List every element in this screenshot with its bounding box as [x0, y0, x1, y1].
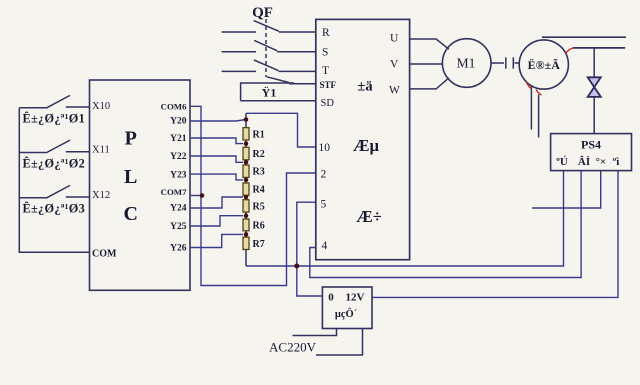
svg-text:ºì: ºì [613, 156, 620, 168]
svg-text:PS4: PS4 [581, 138, 601, 152]
svg-text:P: P [125, 128, 137, 150]
svg-text:R1: R1 [253, 129, 265, 140]
svg-text:X10: X10 [92, 101, 110, 112]
svg-text:L: L [124, 166, 137, 188]
svg-text:Ê±¿Ø¿ª¹Ø3: Ê±¿Ø¿ª¹Ø3 [22, 201, 85, 215]
svg-text:R5: R5 [253, 201, 265, 212]
svg-text:°×: °× [595, 156, 606, 168]
svg-text:Y24: Y24 [170, 204, 187, 214]
svg-text:Y26: Y26 [170, 244, 187, 254]
svg-text:SD: SD [321, 98, 335, 109]
svg-text:5: 5 [321, 199, 327, 211]
svg-text:S: S [322, 47, 328, 59]
svg-text:R6: R6 [253, 220, 265, 231]
svg-text:R2: R2 [253, 149, 265, 160]
svg-text:Y25: Y25 [170, 222, 187, 232]
svg-text:C: C [123, 203, 137, 225]
svg-text:COM6: COM6 [161, 101, 187, 111]
svg-text:V: V [390, 59, 399, 71]
svg-text:X11: X11 [92, 144, 110, 155]
svg-text:ºÚ: ºÚ [556, 156, 568, 168]
svg-text:10: 10 [319, 142, 331, 154]
svg-text:Ÿ1: Ÿ1 [262, 86, 277, 100]
svg-text:4: 4 [322, 240, 328, 252]
svg-text:COM: COM [92, 249, 117, 260]
svg-text:T: T [322, 65, 329, 77]
svg-text:12V: 12V [346, 292, 365, 304]
svg-text:0: 0 [328, 292, 334, 304]
svg-text:COM7: COM7 [161, 187, 187, 197]
svg-text:Æ÷: Æ÷ [356, 207, 382, 226]
svg-text:X12: X12 [92, 190, 110, 201]
svg-text:QF: QF [252, 5, 273, 21]
svg-text:AC220V: AC220V [269, 340, 317, 355]
svg-text:M1: M1 [457, 56, 476, 71]
svg-text:U: U [390, 33, 399, 45]
svg-text:R7: R7 [253, 239, 265, 250]
svg-text:µçÔ´: µçÔ´ [335, 307, 358, 320]
svg-text:Ê±¿Ø¿ª¹Ø1: Ê±¿Ø¿ª¹Ø1 [22, 112, 85, 126]
svg-text:±ä: ±ä [357, 79, 373, 95]
svg-text:Ê±¿Ø¿ª¹Ø2: Ê±¿Ø¿ª¹Ø2 [22, 156, 85, 170]
svg-text:2: 2 [321, 169, 327, 181]
svg-text:Y21: Y21 [170, 134, 187, 144]
svg-text:R3: R3 [253, 167, 265, 178]
svg-text:Y22: Y22 [170, 152, 187, 162]
svg-text:W: W [389, 85, 400, 97]
svg-text:STF: STF [320, 80, 337, 90]
svg-text:R: R [322, 27, 330, 39]
svg-text:R4: R4 [253, 185, 265, 196]
svg-text:ÂÌ: ÂÌ [578, 156, 590, 168]
svg-text:Ë®±Ã: Ë®±Ã [528, 58, 561, 72]
svg-text:Æµ: Æµ [353, 136, 380, 155]
svg-text:Y20: Y20 [170, 117, 187, 127]
svg-text:Y23: Y23 [170, 170, 187, 180]
